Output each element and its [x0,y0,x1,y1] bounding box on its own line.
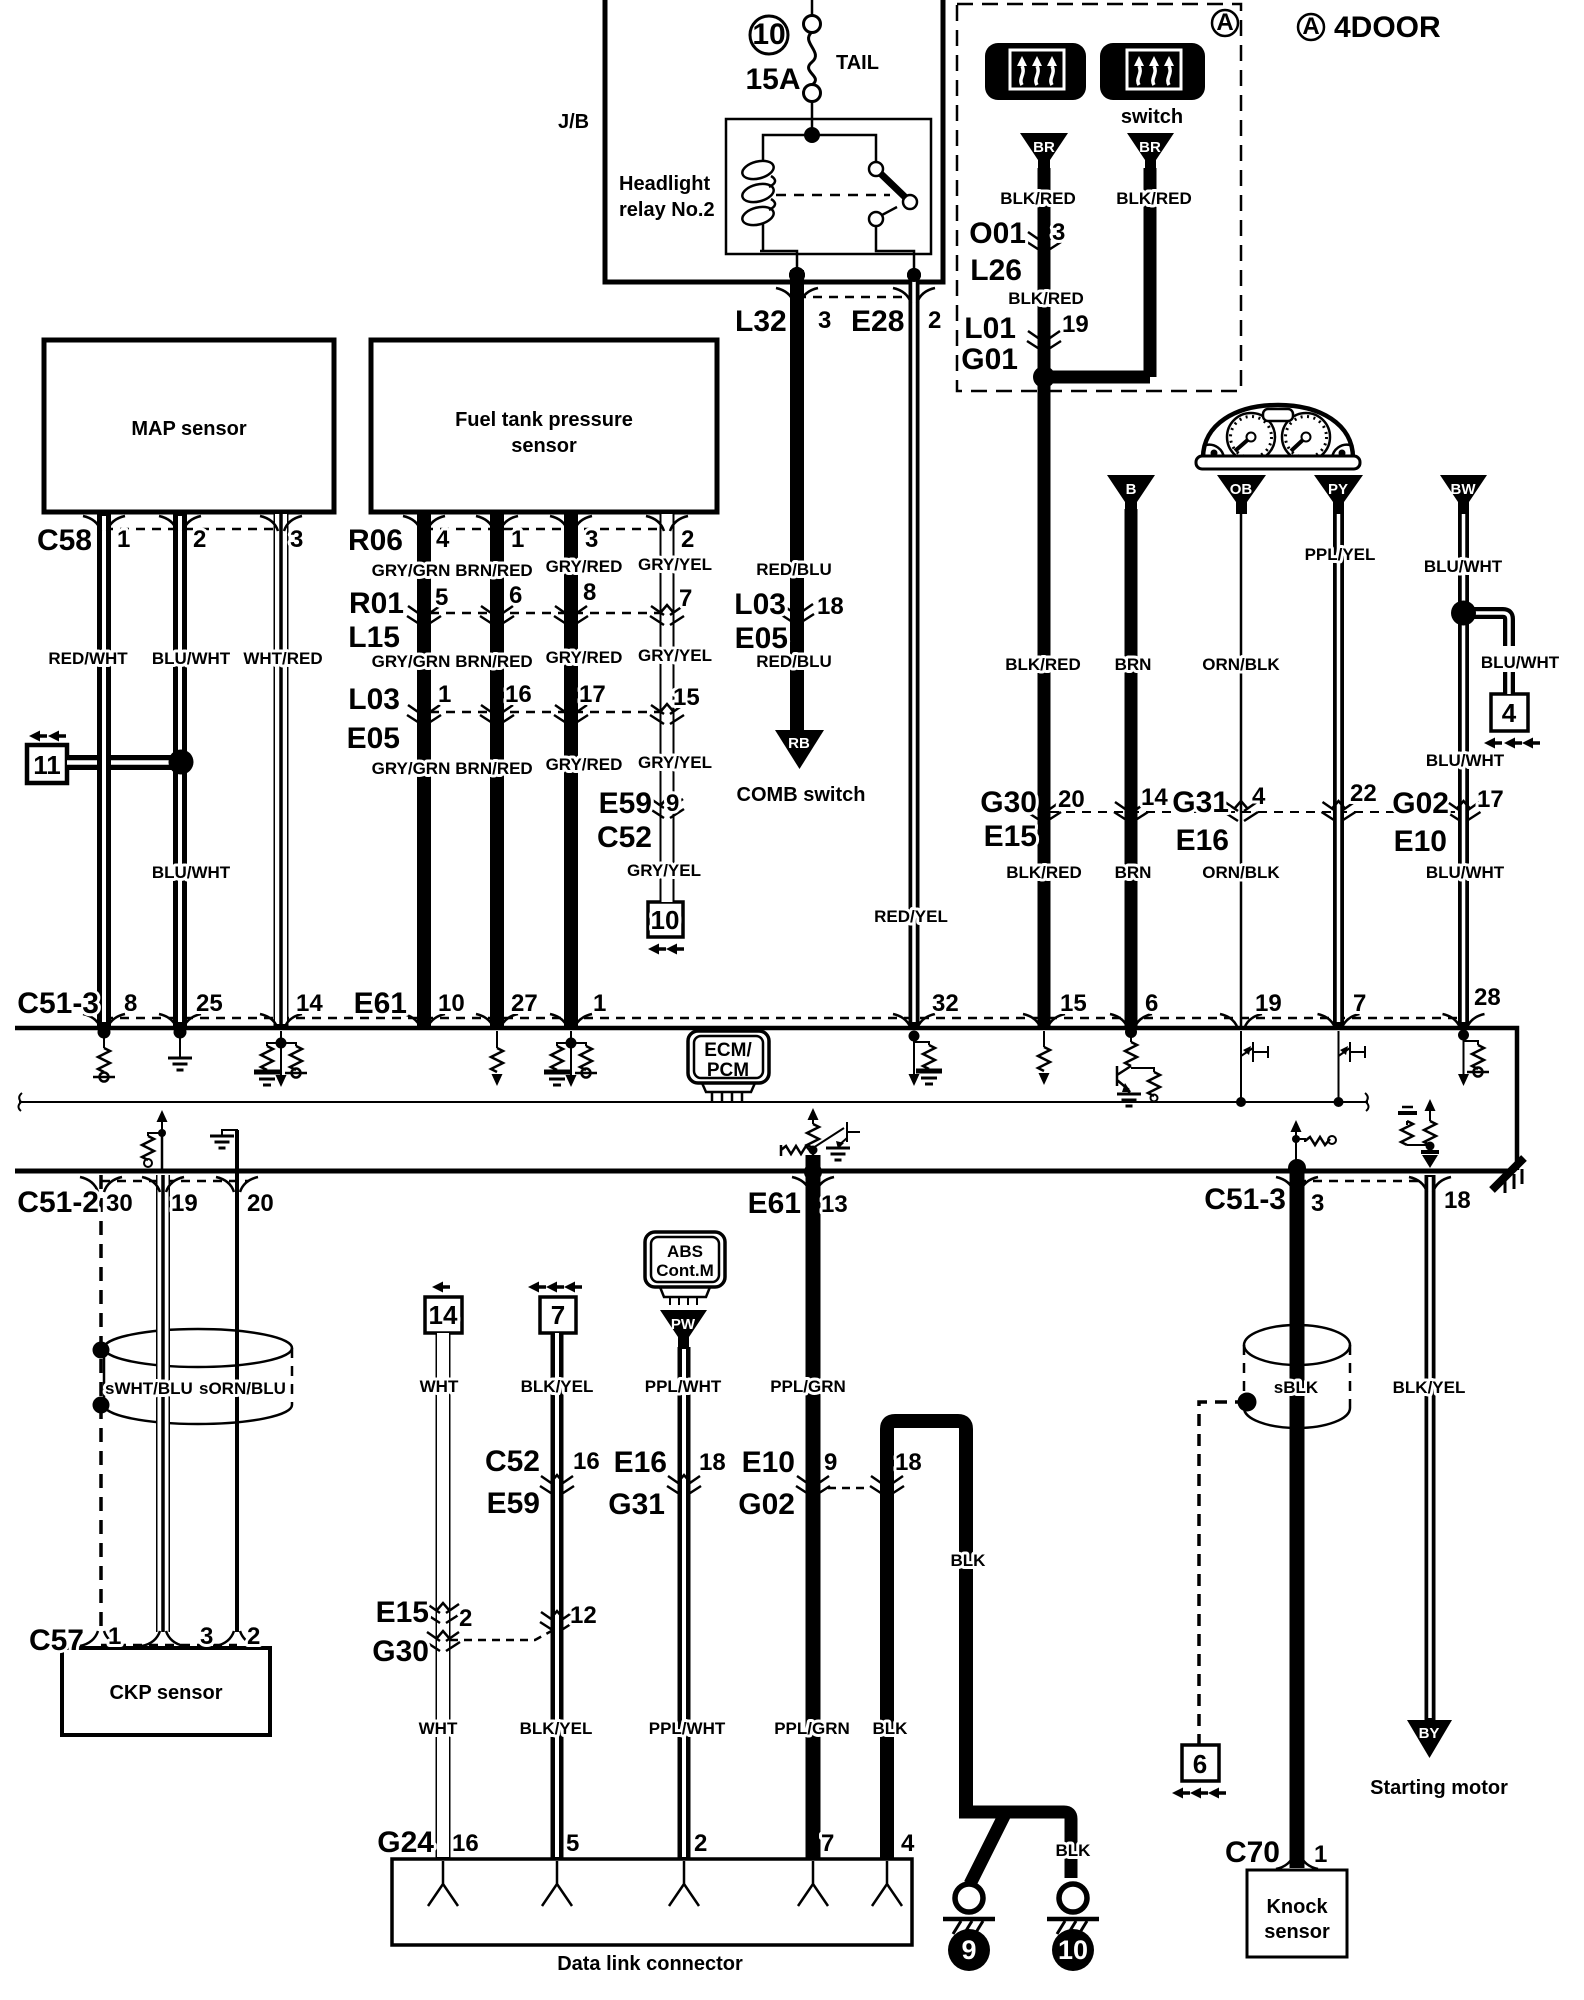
relay lower contact [869,212,883,226]
svg-text:BLK/RED: BLK/RED [1006,863,1082,882]
BLU/WHT junction dot [1451,601,1476,626]
svg-text:A: A [1216,9,1233,36]
svg-text:2: 2 [247,1623,260,1650]
svg-text:L15: L15 [348,621,400,654]
ground number 9 [948,1929,990,1971]
internal transistor above E61 13 [781,1108,860,1171]
arrows below box 6 [1172,1788,1190,1799]
svg-text:BLK/RED: BLK/RED [1116,189,1192,208]
svg-text:E10: E10 [742,1446,795,1479]
svg-text:L03: L03 [348,683,400,716]
svg-text:Starting motor: Starting motor [1370,1777,1508,1799]
svg-text:E16: E16 [1176,824,1229,857]
svg-text:14: 14 [296,990,323,1017]
svg-text:E05: E05 [347,722,400,755]
svg-text:relay No.2: relay No.2 [619,199,715,221]
svg-text:1: 1 [438,681,451,708]
svg-text:14: 14 [429,1300,458,1330]
svg-text:MAP sensor: MAP sensor [131,418,246,440]
BR triangle 1 [1020,133,1068,172]
splice 22 on PPL/YEL [1322,801,1356,821]
internal circuit above C51-3 3 [1291,1120,1337,1165]
svg-text:RB: RB [788,735,810,752]
bracket pins C57 row [80,1631,122,1646]
svg-text:C52: C52 [485,1445,540,1478]
relay coil [763,135,812,251]
svg-text:28: 28 [1474,984,1501,1011]
svg-text:COMB switch: COMB switch [737,784,866,806]
wire R06-2 GRY/YEL outlined [660,512,675,902]
svg-text:BLK: BLK [873,1719,909,1738]
svg-text:WHT: WHT [420,1377,459,1396]
BY arrow triangle starting motor [1407,1720,1452,1758]
splice G02/E10 17 [1447,801,1481,821]
svg-text:BY: BY [1419,1725,1440,1742]
wire C51-2 19 triple [156,1175,170,1632]
svg-text:19: 19 [1255,990,1282,1017]
J/B box [605,0,943,282]
svg-text:E61: E61 [354,987,407,1020]
connector 10 box [648,902,683,937]
BLU/WHT junction dot at box11 wire [169,750,194,775]
wire ORN/BLK from OB [1240,509,1243,1028]
svg-text:7: 7 [679,585,692,612]
dashed wire C51-2 pin30 [99,1175,103,1632]
arrows above box 7 [528,1282,546,1293]
svg-text:ABS: ABS [667,1242,703,1261]
svg-text:20: 20 [247,1190,274,1217]
ECM transistor circuit pin 6 [1117,1032,1160,1106]
Y terminal G24-5 [542,1861,572,1906]
headlight relay No.2 box [726,119,931,254]
svg-text:5: 5 [566,1830,579,1857]
connector 6 box [1182,1745,1219,1781]
B triangle [1107,475,1155,514]
MAP sensor box [44,340,334,512]
node dot internal line pin19 wire [1236,1097,1246,1107]
svg-text:17: 17 [1477,786,1504,813]
svg-text:GRY/RED: GRY/RED [546,755,623,774]
fuse 10 15A TAIL [750,16,821,102]
svg-text:sensor: sensor [511,435,577,457]
svg-text:BRN: BRN [1115,655,1152,674]
ECM transistor pin 7 [1339,1031,1366,1101]
Y terminal G24-2 [669,1861,699,1906]
dashed splice-link E15/G30 to 12 [450,1628,557,1640]
wire C51-2 19 upper stub [161,1133,164,1170]
ECM ground pin 25 [179,1032,181,1058]
Y terminal G24-16 [428,1861,458,1906]
svg-text:BLK/YEL: BLK/YEL [521,1377,594,1396]
svg-text:3: 3 [818,307,831,334]
bracket pins L32/E28 [776,288,818,303]
svg-text:12: 12 [570,1602,597,1629]
splice L03/E05 pins 1/16/17/15 [407,704,441,724]
svg-text:E28: E28 [851,305,904,338]
circle A marker in box [1212,10,1238,36]
svg-text:2: 2 [694,1830,707,1857]
defogger icon 2 (switch) [1100,43,1205,100]
svg-text:3: 3 [200,1623,213,1650]
svg-text:1: 1 [108,1623,121,1650]
svg-text:6: 6 [509,582,522,609]
node dot C51-3 8 [98,1026,111,1039]
splice 12 on BLK/YEL [540,1611,574,1631]
svg-text:PPL/GRN: PPL/GRN [774,1719,850,1738]
svg-text:sBLK: sBLK [1274,1378,1319,1397]
relay contact branch [812,135,876,162]
svg-text:E15: E15 [376,1596,429,1629]
svg-text:7: 7 [1353,990,1366,1017]
svg-text:1: 1 [593,990,606,1017]
splice G30/E15 20 [1027,801,1061,821]
svg-text:2: 2 [928,307,941,334]
svg-text:GRY/YEL: GRY/YEL [638,753,712,772]
svg-text:9: 9 [824,1449,837,1476]
svg-text:3: 3 [1311,1190,1324,1217]
ECM internal line with end ticks [19,1101,1368,1103]
relay internal node dot [804,127,820,143]
svg-text:19: 19 [1062,311,1089,338]
svg-text:RED/YEL: RED/YEL [874,907,948,926]
svg-text:BRN: BRN [1115,863,1152,882]
svg-text:E61: E61 [748,1187,801,1220]
connector 11 box [27,745,67,783]
svg-text:4DOOR: 4DOOR [1334,11,1441,44]
splice E59/C52 9 [650,798,684,818]
svg-text:10: 10 [651,905,680,935]
svg-text:BLK: BLK [951,1551,987,1570]
splice 18 on BLK [870,1475,904,1495]
svg-text:PY: PY [1328,481,1348,498]
splice R01/L15 pins 5/6/8/7 [407,605,441,625]
svg-text:27: 27 [511,990,538,1017]
bracket pins C58 row [83,516,125,531]
svg-text:30: 30 [106,1190,133,1217]
ECM resistor pin 27 [496,1031,498,1048]
instrument cluster icon [1196,405,1360,469]
bus line 2 [15,1169,1509,1174]
svg-text:16: 16 [505,681,532,708]
arrow above box 14 [432,1282,450,1293]
ECM/PCM box [688,1031,769,1101]
BLU/WHT branch double wire to box 4 [1464,613,1509,694]
node dot pin 28 [1458,1030,1469,1041]
svg-text:8: 8 [583,579,596,606]
dashed splice-link row G30/G31/G02 [1050,811,1455,813]
svg-text:G24: G24 [377,1826,434,1859]
svg-text:10: 10 [438,990,465,1017]
relay dashed actuator line [776,194,890,197]
svg-text:9: 9 [666,790,679,817]
arrows below box 4 [1484,738,1502,749]
svg-text:18: 18 [817,593,844,620]
svg-text:C51-2: C51-2 [17,1186,99,1219]
svg-text:32: 32 [932,990,959,1017]
node dot E61 13 on bus [804,1163,822,1181]
dashed connector row C58 [104,528,281,531]
svg-text:BLK/YEL: BLK/YEL [1393,1378,1466,1397]
option dashed box A [957,4,1241,391]
ECM circuit pin 28 [1464,1031,1479,1045]
svg-text:5: 5 [435,584,448,611]
connector 14 box [425,1297,462,1333]
splice O01/L26 3 [1027,231,1061,251]
ECM circuit pin 32 resistor ground [914,1031,929,1045]
svg-text:sensor: sensor [1264,1921,1330,1943]
svg-text:B: B [1126,481,1137,498]
dashed splice-link row L03/E05 [430,711,667,714]
svg-text:E59: E59 [599,787,652,820]
svg-text:GRY/YEL: GRY/YEL [638,646,712,665]
svg-text:L32: L32 [735,305,787,338]
splice 14 on BRN [1114,801,1148,821]
ground circle 9 [943,1884,995,1934]
dashed connector row C57 [101,1644,237,1647]
PW triangle ABS [660,1310,707,1349]
svg-text:sWHT/BLU: sWHT/BLU [105,1379,193,1398]
shield dot CKP top [93,1342,110,1359]
wire BLK/RED from defogger 1 [1038,168,1051,1028]
svg-text:BLK/RED: BLK/RED [1005,655,1081,674]
wire fuse to relay [811,101,814,135]
svg-text:8: 8 [124,990,137,1017]
svg-text:O01: O01 [969,217,1026,250]
svg-text:G30: G30 [372,1635,429,1668]
relay contact exit wire [876,226,914,270]
dashed connector row R06 [424,528,667,531]
svg-text:BW: BW [1451,481,1477,498]
wire R06-4 GRY/GRN [417,512,431,1028]
svg-text:G01: G01 [961,343,1018,376]
dashed connector row C51-3 lower [1297,1180,1430,1183]
wire BLK diagonal to ground 9 [970,1814,1005,1884]
dashed connector row L32/E28 [797,296,914,299]
svg-text:GRY/YEL: GRY/YEL [627,861,701,880]
svg-text:15A: 15A [745,63,800,96]
svg-text:G02: G02 [738,1488,795,1521]
splice L01/G01 19 [1027,330,1061,350]
svg-text:PPL/YEL: PPL/YEL [1305,545,1376,564]
svg-text:ECM/: ECM/ [704,1040,752,1061]
splice L03/E05 18 on L32 [780,603,814,623]
bracket pins C51-2 row [80,1177,122,1192]
Y terminal G24-4 [872,1861,902,1906]
svg-text:9: 9 [961,1935,976,1965]
svg-text:GRY/RED: GRY/RED [546,557,623,576]
node dot pin 14 [276,1038,287,1049]
svg-text:E05: E05 [735,622,788,655]
svg-text:BLU/WHT: BLU/WHT [152,649,231,668]
wire BLK/YEL to BY double medium [1425,1175,1436,1720]
circle A 4DOOR legend [1298,14,1324,40]
wire fuse feed [811,0,814,16]
svg-text:BLU/WHT: BLU/WHT [1426,751,1505,770]
svg-text:OB: OB [1230,481,1253,498]
svg-text:G30: G30 [980,786,1037,819]
svg-text:R01: R01 [349,587,404,620]
svg-text:7: 7 [821,1830,834,1857]
bracket pin E61 13 [792,1177,834,1192]
svg-text:2: 2 [193,526,206,553]
svg-text:E10: E10 [1394,825,1447,858]
svg-text:BR: BR [1033,139,1055,156]
svg-text:15: 15 [673,684,700,711]
bus line 1 ECM [15,1028,1517,1170]
svg-text:17: 17 [579,681,606,708]
wire C58-3 WHT/RED outlined with stripe [274,512,289,1028]
node dot pin 32 [909,1031,920,1042]
svg-text:ORN/BLK: ORN/BLK [1202,655,1280,674]
svg-text:RED/WHT: RED/WHT [48,649,128,668]
svg-text:GRY/GRN: GRY/GRN [372,652,451,671]
L32 stub dot redraw [789,267,805,283]
wire G01 branch horizontal [1044,371,1150,384]
Y terminal G24-7 [798,1861,828,1906]
svg-text:2: 2 [681,526,694,553]
node dot C51-3 25 [174,1026,187,1039]
svg-text:L26: L26 [970,254,1022,287]
dashed wire to option box 6 [1199,1402,1247,1745]
svg-text:Knock: Knock [1266,1896,1328,1918]
BR triangle 2 [1127,133,1174,172]
svg-text:E59: E59 [487,1487,540,1520]
relay blade [880,173,906,198]
svg-text:WHT: WHT [419,1719,458,1738]
splice E15/G30 2 upper [426,1603,460,1623]
svg-text:GRY/GRN: GRY/GRN [372,759,451,778]
svg-text:Cont.M: Cont.M [656,1261,714,1280]
Knock sensor box [1247,1870,1347,1957]
svg-text:E15: E15 [984,820,1037,853]
svg-text:Fuel tank pressure: Fuel tank pressure [455,409,633,431]
relay coil exit wire [760,251,797,270]
svg-text:WHT/RED: WHT/RED [243,649,322,668]
svg-text:GRY/YEL: GRY/YEL [638,555,712,574]
svg-text:BLU/WHT: BLU/WHT [1426,863,1505,882]
svg-text:18: 18 [895,1449,922,1476]
splice E10/G02 9 [796,1475,830,1495]
svg-text:BR: BR [1139,139,1161,156]
CKP sensor box [62,1648,270,1735]
svg-text:2: 2 [459,1605,472,1632]
svg-text:16: 16 [573,1448,600,1475]
svg-text:C70: C70 [1225,1836,1280,1869]
svg-text:BLK/YEL: BLK/YEL [520,1719,593,1738]
dashed splice-link E10/G02 to 18 [828,1487,868,1490]
wire BLK/YEL to G24-5 double medium [551,1333,564,1859]
svg-text:J/B: J/B [558,111,589,133]
svg-text:10: 10 [752,18,785,51]
G01 junction dot [1033,366,1055,388]
svg-text:CKP sensor: CKP sensor [109,1682,222,1704]
wire E28 double medium [909,270,920,1028]
connector 7 box [540,1297,576,1333]
svg-text:4: 4 [1502,698,1517,728]
svg-text:16: 16 [452,1830,479,1857]
shield cylinder knock sBLK [1244,1325,1350,1428]
svg-text:Data link connector: Data link connector [557,1953,743,1975]
svg-text:A: A [1302,13,1319,40]
wire BLK loop to G24-4 and grounds [887,1421,966,1859]
svg-text:BRN/RED: BRN/RED [455,652,532,671]
svg-text:22: 22 [1350,780,1377,807]
svg-text:BRN/RED: BRN/RED [455,759,532,778]
Fuel tank pressure sensor box [371,340,717,512]
OB triangle [1217,475,1266,514]
defogger icon 1 [985,43,1086,100]
svg-text:G31: G31 [1172,786,1229,819]
svg-text:14: 14 [1141,784,1168,811]
svg-text:1: 1 [511,526,524,553]
node dot internal line pin7 wire [1334,1097,1344,1107]
connector 4 box [1491,694,1528,731]
ground circle 10 [1047,1884,1099,1934]
splice C52/E59 16 [540,1475,574,1495]
double wire from box 11 to BLU/WHT junction [67,755,175,770]
wire L32 RED/BLU thick [790,270,804,731]
RB arrow triangle COMB switch [775,730,824,769]
svg-text:C57: C57 [29,1624,84,1657]
internal ground above C51-2 20 [210,1130,237,1171]
svg-text:TAIL: TAIL [836,52,879,74]
svg-text:1: 1 [1314,1841,1327,1868]
svg-text:Headlight: Headlight [619,173,710,195]
svg-text:15: 15 [1060,990,1087,1017]
splice E15/G30 lower [426,1631,460,1651]
bracket pins R06 row [403,516,445,531]
svg-text:G31: G31 [608,1488,665,1521]
svg-text:6: 6 [1145,990,1158,1017]
svg-text:PCM: PCM [707,1060,749,1081]
shield cylinder CKP [104,1329,292,1424]
svg-text:ORN/BLK: ORN/BLK [1202,863,1280,882]
bracket pin C70 1 [1276,1854,1318,1869]
ECM circuit pin 1 [566,1038,577,1049]
svg-text:3: 3 [290,526,303,553]
svg-text:20: 20 [1058,786,1085,813]
ECM transistor pin 19 [1241,1031,1268,1101]
svg-text:4: 4 [901,1830,915,1857]
ECM circuit pin 14 resistor to ground [267,1031,296,1046]
wire BLK horizontal to ground 10 [959,1812,1071,1878]
svg-text:11: 11 [33,750,61,780]
svg-text:BLU/WHT: BLU/WHT [1424,557,1503,576]
svg-text:L01: L01 [964,312,1016,345]
wire BRN from B [1125,509,1138,1028]
svg-text:19: 19 [171,1190,198,1217]
svg-text:BLU/WHT: BLU/WHT [1481,653,1560,672]
wire PPL/WHT to G24-2 double medium [678,1347,691,1859]
wire C58-2 BLU/WHT double thick [173,512,187,1028]
svg-text:PPL/GRN: PPL/GRN [770,1377,846,1396]
arrows above box 11 [29,731,47,742]
svg-text:GRY/RED: GRY/RED [546,648,623,667]
L32 junction dot [789,267,805,283]
splice E16/G31 18 [667,1475,701,1495]
internal circuit above 18 BLK/YEL [1398,1099,1439,1168]
wire sBLK to knock sensor [1290,1163,1305,1868]
svg-text:sORN/BLU: sORN/BLU [199,1379,286,1398]
svg-text:1: 1 [117,526,130,553]
ground number 10 [1052,1929,1094,1971]
internal circuit above C51-2 19 arrow and resistor [142,1110,168,1170]
svg-text:PPL/WHT: PPL/WHT [645,1377,722,1396]
svg-text:18: 18 [699,1449,726,1476]
Data link connector box [392,1859,912,1945]
bracket pins C51-3 lower row [1276,1177,1318,1192]
ECM pullup resistor pin 8 [103,1032,105,1048]
